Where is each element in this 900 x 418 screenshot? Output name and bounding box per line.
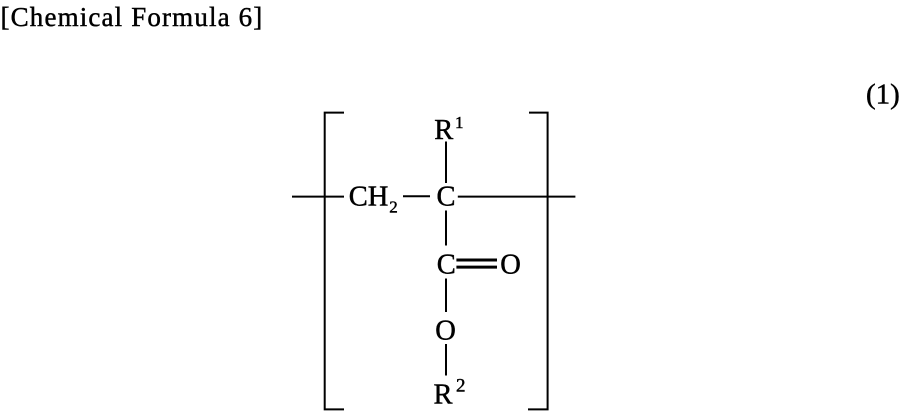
- svg-text:C: C: [437, 249, 456, 280]
- svg-text:O: O: [435, 315, 456, 346]
- svg-text:O: O: [500, 250, 521, 281]
- svg-text:2: 2: [456, 375, 466, 396]
- bond CH2 to C: [403, 195, 430, 197]
- bond O to R2: [445, 344, 447, 376]
- bond C to carbonyl C: [445, 211, 447, 246]
- svg-text:R: R: [434, 115, 453, 146]
- double bond C=O upper line: [456, 259, 497, 262]
- bond carbonyl C to ester O: [445, 279, 447, 313]
- double bond C=O lower line: [456, 266, 497, 269]
- svg-text:C: C: [437, 181, 456, 212]
- right repeat bracket: [528, 113, 548, 410]
- svg-text:1: 1: [455, 113, 464, 132]
- left repeat bracket: [325, 113, 344, 410]
- svg-text:2: 2: [389, 198, 398, 217]
- svg-text:CH: CH: [349, 181, 389, 212]
- svg-text:(1): (1): [866, 78, 900, 110]
- bond R1 to C: [445, 142, 447, 184]
- wire: backbone bond right (through bracket): [458, 196, 576, 198]
- svg-text:R: R: [434, 379, 453, 410]
- svg-text:[Chemical Formula 6]: [Chemical Formula 6]: [1, 2, 264, 32]
- wire: backbone bond left (through bracket): [292, 196, 344, 198]
